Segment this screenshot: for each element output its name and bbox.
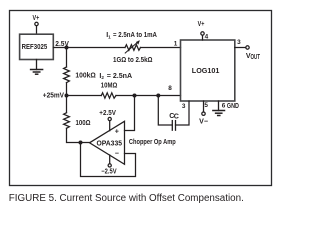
wire pin 5 stub xyxy=(203,101,205,112)
svg-text:V−: V− xyxy=(199,118,208,126)
svg-text:Chopper Op Amp: Chopper Op Amp xyxy=(129,138,176,146)
log amplifier LOG101 box xyxy=(181,40,235,101)
svg-text:2.5V: 2.5V xyxy=(55,40,69,48)
wire V+ stub to REF3025 xyxy=(36,26,38,35)
op-amp U1 OPA335 (apex pointing left) xyxy=(90,121,125,164)
svg-text:+25mV: +25mV xyxy=(43,92,64,100)
svg-text:REF3025: REF3025 xyxy=(22,43,48,51)
svg-text:OPA335: OPA335 xyxy=(97,139,123,147)
wire -2.5V stub xyxy=(109,155,111,164)
svg-text:6: 6 xyxy=(222,102,226,109)
svg-text:LOG101: LOG101 xyxy=(192,67,220,75)
junction Cc tap xyxy=(156,94,160,98)
resistor R3 100Ω xyxy=(64,113,70,129)
svg-text:8: 8 xyxy=(168,85,172,92)
junction op-amp output node xyxy=(79,141,83,145)
resistor R4 10MΩ xyxy=(101,93,116,98)
svg-text:4: 4 xyxy=(205,33,209,40)
terminal +2.5V (op-amp V+) xyxy=(108,117,111,120)
svg-text:I2 = 2.5nA: I2 = 2.5nA xyxy=(99,72,132,80)
ground (REF3025) xyxy=(31,60,43,75)
voltage reference REF3025 box xyxy=(20,34,54,59)
junction 2.5V node xyxy=(65,46,69,50)
wire pin 3 to Vout xyxy=(235,47,246,49)
resistor R1 1GΩ to 2.5kΩ (variable) xyxy=(125,45,141,51)
wire +25mV node to R4 xyxy=(67,95,102,97)
wire 2.5V node: REF3025 output to R1 xyxy=(53,47,125,49)
svg-text:FIGURE 5. Current Source with: FIGURE 5. Current Source with Offset Com… xyxy=(9,193,244,204)
wire op-amp - input feedback loop xyxy=(81,143,136,177)
wire R2 to +25mV node xyxy=(66,83,68,113)
svg-text:100kΩ: 100kΩ xyxy=(75,71,96,79)
terminal -2.5V (op-amp V-) xyxy=(108,164,111,167)
ground GND (LOG101 pin 6) xyxy=(213,101,225,116)
terminal V- (LOG101 pin 5) xyxy=(202,112,205,115)
svg-text:+2.5V: +2.5V xyxy=(99,109,116,117)
svg-text:OUT: OUT xyxy=(251,53,261,61)
svg-text:−2.5V: −2.5V xyxy=(101,168,117,176)
junction op-amp + input tap xyxy=(133,94,137,98)
svg-text:I1 = 2.5nA to 1mA: I1 = 2.5nA to 1mA xyxy=(106,31,157,39)
terminal Vout xyxy=(246,46,249,49)
svg-text:1GΩ to 2.5kΩ: 1GΩ to 2.5kΩ xyxy=(113,56,153,64)
terminal V+ (REF3025 supply) xyxy=(35,22,38,25)
wire R4 to LOG101 pin 8 xyxy=(116,95,181,97)
svg-text:V+: V+ xyxy=(198,20,205,28)
wire Cc to node B xyxy=(158,96,172,126)
capacitor Cc xyxy=(172,121,175,131)
wire pin 3 bottom to Cc xyxy=(176,101,190,125)
wire +2.5V stub xyxy=(109,121,111,131)
svg-text:100Ω: 100Ω xyxy=(76,119,91,127)
wire 2.5V node down to R2 xyxy=(66,48,68,68)
svg-text:3: 3 xyxy=(182,103,186,110)
svg-text:5: 5 xyxy=(204,102,208,109)
wire R1 to LOG101 pin 1 xyxy=(141,47,181,49)
svg-text:+: + xyxy=(115,127,119,135)
svg-text:10MΩ: 10MΩ xyxy=(101,82,118,90)
resistor R2 100kΩ xyxy=(64,67,70,83)
terminal V+ (LOG101 pin 4) xyxy=(201,32,204,35)
svg-text:−: − xyxy=(115,150,119,158)
border frame xyxy=(10,11,272,186)
wire R3 bottom to op-amp output node xyxy=(67,128,90,142)
svg-text:1: 1 xyxy=(174,41,178,48)
svg-text:V+: V+ xyxy=(33,14,40,22)
svg-text:GND: GND xyxy=(227,102,239,110)
junction +25mV node xyxy=(65,94,69,98)
svg-text:3: 3 xyxy=(237,39,241,46)
variable-resistor arrow xyxy=(125,41,138,53)
wire op-amp + input to node B xyxy=(125,96,135,131)
svg-text:C: C xyxy=(174,112,179,120)
wire pin 4 stub xyxy=(202,35,204,40)
